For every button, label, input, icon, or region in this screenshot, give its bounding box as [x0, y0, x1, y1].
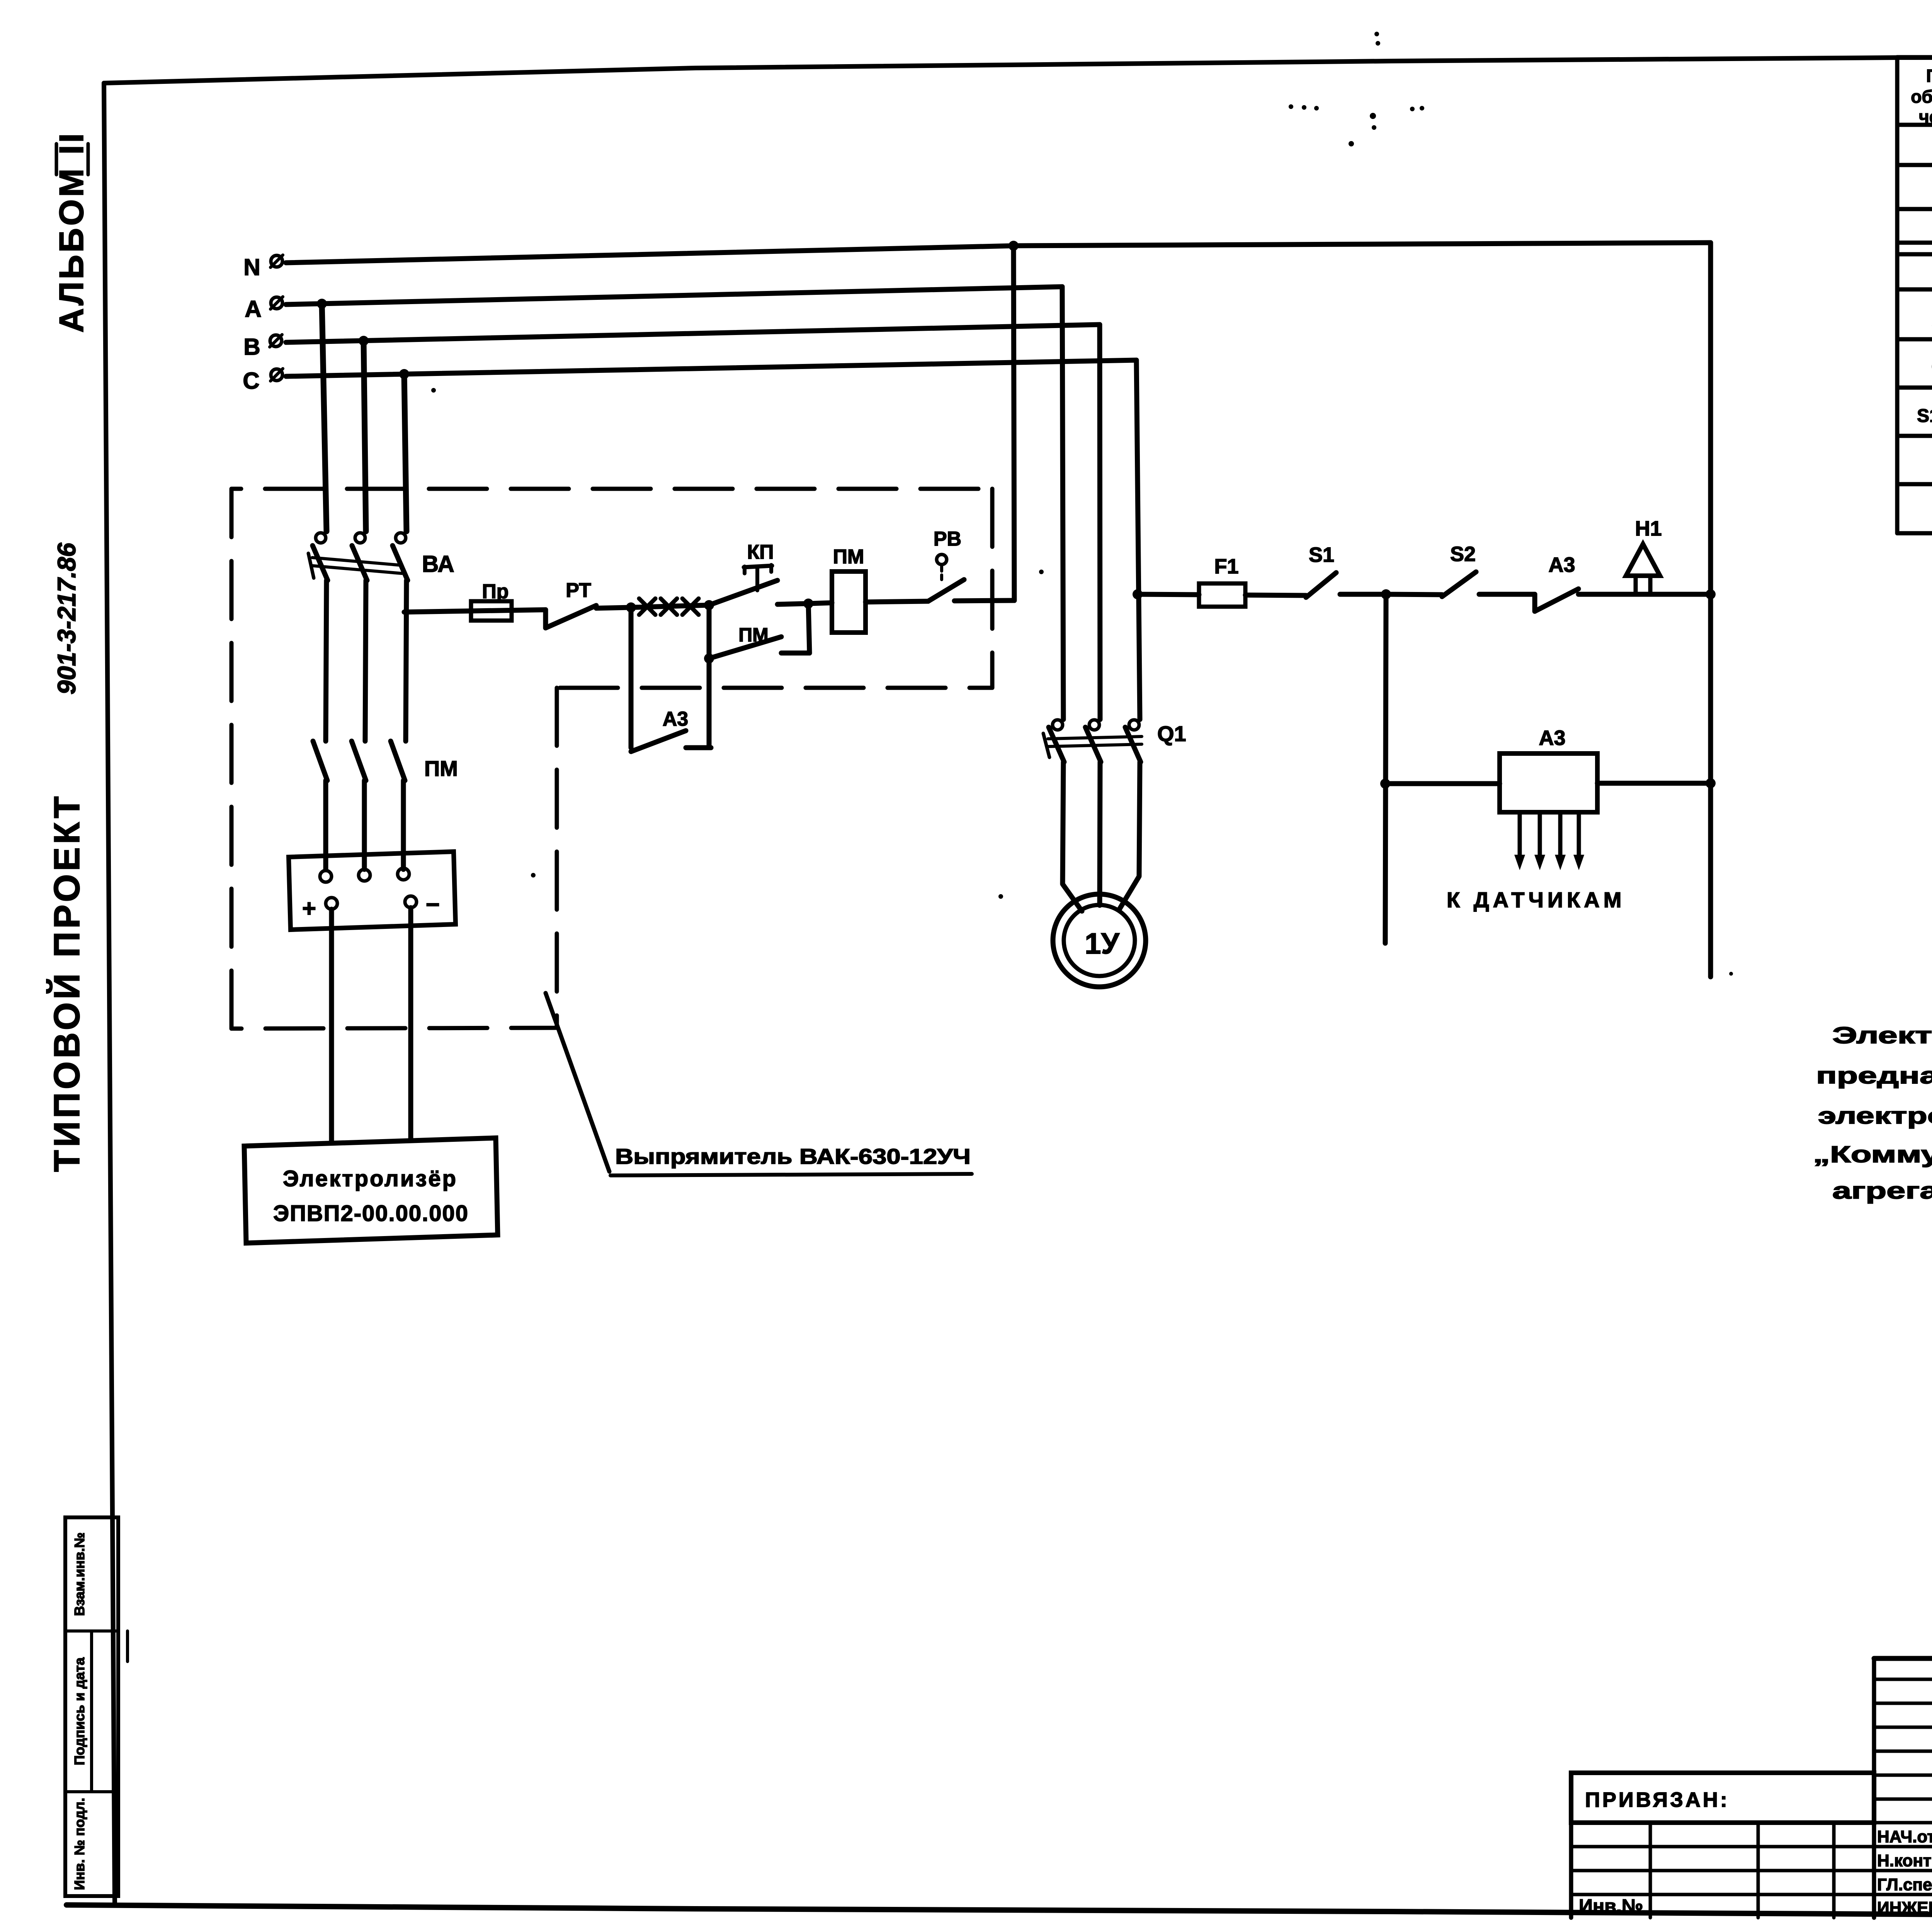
- wire А3 contact to N drop: [1578, 592, 1711, 597]
- wire to А3 box: [1385, 781, 1500, 786]
- svg-text:F1: F1: [1214, 555, 1238, 578]
- svg-text:A: A: [245, 296, 261, 322]
- svg-text:Н.контр.: Н.контр.: [1877, 1851, 1932, 1870]
- svg-text:Q1: Q1: [1157, 721, 1186, 746]
- wire Q1 to motor right: [1119, 762, 1140, 909]
- svg-text:Поз.: Поз.: [1926, 66, 1932, 86]
- junction on bus B: [359, 336, 369, 346]
- svg-text:Взам.инв.№: Взам.инв.№: [71, 1532, 87, 1616]
- wire phase A drop to Q1: [1062, 287, 1063, 719]
- node right of РТ heaters: [704, 600, 714, 610]
- dashed enclosure ВАК-630-12УЧ: [231, 489, 992, 1029]
- svg-text:901-3-217.86: 901-3-217.86: [52, 542, 81, 694]
- svg-text:ЭПВП2-00.00.000: ЭПВП2-00.00.000: [273, 1201, 469, 1226]
- wire Q1 to motor left: [1063, 762, 1082, 911]
- bus terminal C: [271, 369, 282, 381]
- svg-text:А3: А3: [1539, 726, 1565, 750]
- junction on bus C: [399, 369, 409, 379]
- wire А3 box to N drop: [1597, 781, 1711, 786]
- component list table: [1895, 57, 1900, 533]
- title block: [1874, 1656, 1932, 1661]
- svg-text:N: N: [243, 254, 260, 280]
- Q1 linkage bar upper: [1048, 736, 1142, 739]
- junction sensors branch: [1380, 779, 1390, 789]
- Q1 linkage end tick: [1043, 733, 1049, 757]
- svg-text:обозна-: обозна-: [1911, 87, 1932, 107]
- motor 1У inner circle: [1064, 905, 1135, 976]
- wire node to А3 contact right leg: [707, 605, 712, 748]
- rectifier + terminal: [326, 898, 337, 909]
- svg-text:Выпрямитель ВАК-630-12УЧ: Выпрямитель ВАК-630-12УЧ: [615, 1144, 971, 1168]
- circuit breaker ВА: [316, 533, 326, 543]
- wire Q1 to motor middle: [1100, 762, 1100, 905]
- wire + to electrolyzer: [329, 909, 334, 1143]
- svg-text:А3: А3: [1548, 553, 1575, 577]
- svg-text:К ДАТЧИКАМ: К ДАТЧИКАМ: [1447, 888, 1625, 912]
- bus terminal B: [270, 335, 282, 347]
- level signalling device А3 box: [1500, 753, 1597, 812]
- time relay contact РВ: [937, 554, 947, 565]
- bus C: [286, 360, 1136, 376]
- svg-text:КП: КП: [747, 541, 774, 563]
- wire node to А3 contact left leg: [629, 607, 634, 748]
- scan specks: [1374, 32, 1379, 36]
- level switch contact А3: [631, 731, 686, 752]
- wire РТ to heaters: [596, 607, 631, 608]
- thermal relay contact РТ: [543, 610, 548, 628]
- svg-text:РВ: РВ: [934, 528, 961, 550]
- svg-text:C: C: [243, 368, 259, 394]
- sheet frame bottom border: [66, 1905, 1932, 1918]
- svg-text:ИНЖЕН.: ИНЖЕН.: [1877, 1898, 1932, 1917]
- wire sensors branch left: [1385, 594, 1386, 943]
- svg-text:НАЧ.отд: НАЧ.отд: [1877, 1827, 1932, 1846]
- svg-text:РТ: РТ: [566, 579, 591, 602]
- siren Н1: [1626, 544, 1660, 576]
- svg-text:S1, S2: S1, S2: [1917, 406, 1932, 426]
- wire phase A drop to ВА: [322, 304, 327, 531]
- leader line to Выпрямитель label: [546, 993, 609, 1172]
- svg-text:ПРИВЯЗАН:: ПРИВЯЗАН:: [1585, 1788, 1730, 1811]
- svg-text:Подпись и дата: Подпись и дата: [71, 1657, 87, 1765]
- junction on bus A: [317, 299, 327, 309]
- junction N drop with signal wire: [1706, 589, 1716, 599]
- contactor ПМ main contacts: [313, 741, 327, 781]
- rectifier input terminal: [359, 869, 370, 881]
- svg-text:ВА: ВА: [422, 551, 454, 577]
- wire C to РТ: [404, 610, 546, 612]
- rectifier input terminal: [320, 871, 332, 882]
- rectifier terminals box: [289, 852, 456, 930]
- svg-text:S2: S2: [1450, 543, 1476, 566]
- svg-text:электролизом питьевых вод,: электролизом питьевых вод, поставляется …: [1818, 1103, 1932, 1129]
- wire - to electrolyzer: [408, 908, 413, 1141]
- bus B: [286, 325, 1100, 342]
- sensor arrows: [1518, 812, 1522, 858]
- switch Q1: [1053, 720, 1063, 730]
- svg-text:ПМ: ПМ: [424, 756, 458, 781]
- wire phase C drop to Q1: [1136, 360, 1140, 719]
- signal contact А3: [1532, 594, 1537, 611]
- sheet frame top border: [104, 56, 1932, 83]
- svg-text:Пр: Пр: [482, 580, 509, 603]
- svg-text:ТИПОВОЙ ПРОЕКТ: ТИПОВОЙ ПРОЕКТ: [46, 793, 87, 1172]
- svg-text:Электролизная установка „Пот: Электролизная установка „Поток", индекс …: [1832, 1022, 1932, 1048]
- wire through РТ heaters: [631, 605, 709, 607]
- rectifier - terminal: [405, 896, 417, 908]
- svg-text:Инв. № подл.: Инв. № подл.: [71, 1798, 87, 1890]
- wire into ПМ coil: [808, 603, 832, 604]
- margin stamp box: [65, 1517, 118, 1896]
- toggle switch S2: [1442, 572, 1476, 597]
- contactor aux contact ПМ self hold: [709, 637, 781, 658]
- wire РВ to N return: [954, 600, 1014, 601]
- wire phase C drop to ВА: [404, 374, 406, 531]
- svg-text:1У: 1У: [1085, 927, 1119, 960]
- svg-text:−: −: [426, 891, 440, 918]
- node ПМ aux tap: [704, 653, 714, 663]
- bus A: [286, 287, 1062, 304]
- bus N: [286, 243, 1711, 263]
- junction C drop to F1: [1133, 589, 1143, 599]
- motor 1У outer circle: [1053, 894, 1146, 987]
- svg-text:B: B: [243, 334, 260, 360]
- svg-text:ГЛ.спец.: ГЛ.спец.: [1877, 1875, 1932, 1894]
- node left of РТ heaters: [626, 602, 636, 612]
- svg-text:Электролизёр: Электролизёр: [283, 1166, 457, 1191]
- toggle switch S1: [1306, 573, 1336, 597]
- junction on bus N: [1009, 241, 1019, 251]
- svg-text:„Коммунальник" в комплекте: „Коммунальник" в комплекте с выпрямитель…: [1813, 1141, 1932, 1167]
- wire C drop to F1: [1138, 594, 1199, 595]
- привязан box: [1571, 1773, 1874, 1823]
- junction А3 box wire with N drop: [1706, 778, 1716, 788]
- svg-text:Н1: Н1: [1635, 517, 1662, 540]
- bus terminal A: [271, 297, 282, 309]
- rectifier input terminal: [398, 868, 409, 880]
- svg-text:Инв.№: Инв.№: [1579, 1895, 1643, 1917]
- wire S1 to node: [1340, 592, 1386, 597]
- svg-text:+: +: [302, 895, 316, 922]
- bus terminal N: [271, 255, 282, 267]
- ВА linkage bar lower: [312, 566, 402, 573]
- fuse Пр: [471, 601, 512, 621]
- svg-text:предназначенная для обеззара: предназначенная для обеззараживания прям…: [1816, 1063, 1932, 1088]
- ВА linkage end tick: [308, 553, 314, 578]
- svg-text:ПМ: ПМ: [738, 624, 769, 646]
- fuse F1: [1199, 583, 1245, 607]
- contactor coil ПМ: [832, 571, 866, 633]
- underline of Выпрямитель label: [611, 1174, 972, 1175]
- wire return to bus N: [1014, 246, 1014, 600]
- svg-text:агрегатом типа ВАК-630-12УЧ.: агрегатом типа ВАК-630-12УЧ.: [1832, 1178, 1932, 1204]
- wire node to S2: [1386, 594, 1442, 595]
- svg-text:А3: А3: [663, 708, 688, 730]
- wire N drop right side: [1708, 243, 1713, 977]
- wire phase B drop to ВА: [364, 341, 366, 531]
- junction after S1: [1381, 589, 1391, 599]
- wire F1 to S1: [1245, 595, 1306, 595]
- wire phase B drop to Q1: [1100, 325, 1100, 719]
- РТ heater elements xxx: [639, 599, 655, 615]
- Q1 linkage bar lower: [1048, 744, 1142, 747]
- push button КП: [709, 580, 777, 605]
- electrolyzer box: [244, 1138, 498, 1243]
- wire ПМ coil to РВ: [866, 601, 928, 602]
- ВА linkage bar upper: [312, 558, 402, 565]
- svg-text:чение: чение: [1919, 107, 1932, 127]
- sheet frame left border: [104, 83, 115, 1905]
- wire КП to ПМ coil: [777, 604, 808, 604]
- node before ПМ coil: [803, 599, 813, 609]
- svg-text:ПМ: ПМ: [833, 546, 864, 568]
- svg-text:S1: S1: [1309, 543, 1334, 566]
- wire S2 to А3 contact: [1479, 592, 1535, 597]
